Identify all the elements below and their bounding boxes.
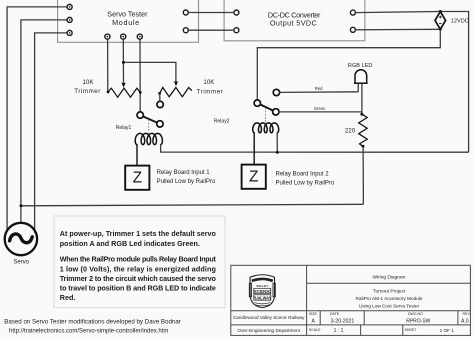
wire: ground return bus [21,204,363,206]
svg-text:1 OF 1: 1 OF 1 [440,328,455,333]
wire: servo module to DC-DC 5V bottom [188,29,233,31]
svg-text:1 low (0 Volts), the relay is: 1 low (0 Volts), the relay is energized … [60,264,216,273]
wire: K2 coil left lead to relay board input 2 [253,132,255,164]
relay K2 coil [253,123,279,133]
node: ground return junction at servo [20,204,23,207]
wire: R2 left to relay K1 NO contact [159,93,161,101]
DC-DC right terminal 4 [350,27,355,32]
svg-text:RGB LED: RGB LED [348,63,373,69]
svg-text:Green: Green [314,106,326,111]
servo module bottom terminal 5 [121,34,126,39]
relay K1 pole contact [137,112,143,118]
svg-text:DATE: DATE [330,312,340,316]
wire: LED green pin [361,84,363,114]
wire: wiper branch to trimmer R2 wiper [123,62,175,81]
svg-text:Red.: Red. [60,293,76,302]
relay K1 actuator dashed link [148,120,150,134]
svg-text:http://trainelectronics.com/Se: http://trainelectronics.com/Servo-simple… [9,328,168,334]
wire: K1 coil right lead to +5 rail [161,144,469,152]
wire: K2 NO contact to LED red pin [279,91,358,94]
wire: K2 coil right lead to +5 rail [276,132,278,152]
svg-text:Servo: Servo [13,260,29,266]
svg-text:SIZE: SIZE [309,312,317,316]
arrow: trimmer R2 wiper [174,81,178,86]
servo tester module box [58,0,199,42]
svg-text:REV: REV [463,312,471,316]
svg-text:Over-Engineering Department: Over-Engineering Department [237,328,300,333]
wire: terminal 4 to trimmer R1 left [107,39,109,92]
relay K2 actuator dashed link [265,108,267,123]
node: R3 bottom junction [362,145,365,148]
servo module right terminal 8 [183,28,188,33]
svg-text:Trimmer 2 to the circuit which: Trimmer 2 to the circuit which caused th… [60,274,217,283]
svg-text:Using Low Cost Servo Tester: Using Low Cost Servo Tester [359,303,420,308]
svg-text:Module: Module [112,18,140,27]
12VDC source V1 [435,12,446,30]
svg-text:Pulled Low by RailPro: Pulled Low by RailPro [276,180,335,186]
logo: Candlewood Valley Scenic Railway crest [249,275,275,308]
relay K1 NC contact [157,121,163,127]
servo module right terminal 7 [183,10,188,15]
resistor R3 220 [359,114,368,146]
relay board input 1 box Z1 [125,166,149,190]
node: R1 right end junction [139,91,142,94]
svg-text:Pulled Low by RailPro: Pulled Low by RailPro [157,179,216,185]
relay K2 NO contact (Red) [273,89,279,95]
svg-text:220: 220 [345,127,356,134]
relay K1 NO contact [157,101,163,107]
relay board input 2 box Z2 [242,165,266,189]
wire: terminal 6 to trimmer R1 right / relay K1 pole [139,39,141,112]
wire: servo module to DC-DC 5V top [188,12,233,14]
relay K2 NC contact (Green) [273,109,279,115]
node: K2 coil rail junction [276,151,279,154]
svg-text:At power-up, Trimmer 1 sets th: At power-up, Trimmer 1 sets the default … [60,229,217,238]
svg-text:Trimmer: Trimmer [197,89,224,96]
wire: input 2 to servo module terminal 2 [21,20,67,223]
svg-text:3-20-2021: 3-20-2021 [331,319,355,325]
servo module bottom terminal 4 [105,34,110,39]
wire: 12V to relay2 pole [257,29,440,100]
svg-text:Based on Servo Tester modifica: Based on Servo Tester modifications deve… [4,319,181,326]
svg-text:Output 5VDC: Output 5VDC [270,19,317,28]
svg-text:Trimmer: Trimmer [74,88,101,95]
wire: DC-DC bottom output to 12VDC source [356,28,441,31]
node: 12VDC top junction [439,10,442,13]
relay K2 pole contact [254,100,260,106]
node: LED green / resistor junction [360,113,363,116]
servo module bottom terminal 6 [137,34,142,39]
svg-text:Relay2: Relay2 [214,118,230,124]
trimmer resistor R1 10K [108,88,140,97]
svg-text:Relay Board Input 2: Relay Board Input 2 [276,172,330,178]
arrow: trimmer R1 wiper [122,83,126,88]
relay K2 blade [260,105,273,111]
servo module left terminal 1 [67,4,72,9]
title block: size/date/dwg/rev headers [309,312,470,316]
RGB LED D1 [354,70,368,83]
svg-text:10K: 10K [82,79,94,86]
node: R1 left end [107,91,110,94]
svg-text:DWG NO: DWG NO [408,312,423,316]
svg-text:Relay1: Relay1 [116,125,132,131]
wire: terminal 5 wiper feed [122,39,124,82]
servo module left terminal 2 [67,17,72,22]
svg-text:RAILWAY: RAILWAY [253,295,272,300]
wire: R3 bottom to ground return [362,146,364,204]
svg-text:SCENIC: SCENIC [254,289,272,294]
svg-text:A.0: A.0 [461,319,469,325]
note box [54,216,225,308]
svg-text:1 : 1: 1 : 1 [334,328,344,334]
svg-text:position A and RGB Led indicat: position A and RGB Led indicates Green. [60,239,200,248]
DC-DC left terminal 1 [234,10,239,15]
svg-text:Wiring Diagram: Wiring Diagram [372,275,405,281]
svg-text:Relay Board Input 1: Relay Board Input 1 [157,170,211,176]
note text [60,229,217,302]
node: 12VDC bottom junction [439,28,442,31]
svg-text:Z: Z [133,170,142,187]
svg-text:SHEET: SHEET [405,328,418,332]
title block frame [231,265,471,335]
wire: DC-DC top output to 12VDC node and right rail [356,12,469,153]
relay K1 blade [143,117,157,123]
svg-text:SCALE: SCALE [309,328,321,332]
DC-DC converter box [224,0,365,41]
servo module left terminal 3 [67,30,72,35]
svg-text:12VDC: 12VDC [451,19,469,25]
wire: input 3 to servo module terminal 3 [35,33,67,233]
node: R2 left end [158,92,161,95]
wire: input 1 to servo module terminal 1 [7,7,67,231]
svg-text:Candlewood Valley Scenic Railw: Candlewood Valley Scenic Railway [233,315,305,320]
svg-text:10K: 10K [203,79,215,86]
trimmer resistor R2 10K [160,88,192,97]
node: wiper branch junction [122,61,125,64]
wire: LED red pin [357,84,359,92]
svg-text:RPRO-SW: RPRO-SW [406,319,430,325]
relay K1 coil [135,133,162,144]
AC source: servo motor M1 [5,223,37,255]
svg-text:VALLEY: VALLEY [256,284,269,288]
DC-DC right terminal 3 [350,10,355,15]
svg-text:Red: Red [315,86,323,91]
svg-text:Z: Z [249,169,258,186]
svg-text:Turnout Project: Turnout Project [373,289,406,295]
svg-text:RailPro AM-1 Accessory Module: RailPro AM-1 Accessory Module [356,296,423,301]
svg-text:to travel to position B and RG: to travel to position B and RGB LED to i… [60,284,216,293]
wire: K2 NC contact to LED green pin [279,111,362,113]
wire: K1 coil left lead to relay board input 1 [136,144,138,165]
DC-DC left terminal 2 [234,28,239,33]
svg-text:When the RailPro module pulls: When the RailPro module pulls Relay Boar… [60,255,217,264]
